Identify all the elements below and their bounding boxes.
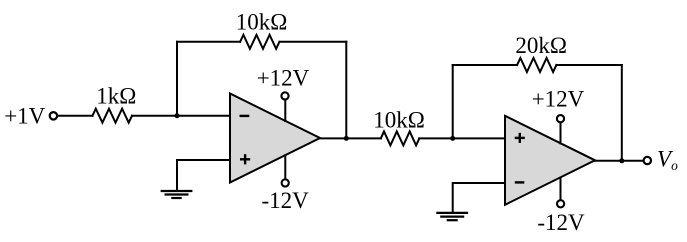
wire feedback1 vertical up (176, 42, 178, 116)
svg-text:Vo: Vo (657, 146, 678, 173)
resistor R3 10kΩ (381, 131, 420, 145)
svg-text:-12V: -12V (537, 210, 585, 235)
wire feedback2 vertical down to output (621, 65, 623, 161)
svg-text:+12V: +12V (257, 66, 310, 91)
wire R3 to op-amp U2 non-inverting input (419, 137, 505, 139)
output terminal (644, 157, 651, 164)
wire feedback2 vertical up (452, 65, 454, 138)
wire input terminal to R1 (58, 115, 93, 117)
U2 -12V supply stub (560, 178, 562, 200)
ground 1 (161, 191, 193, 198)
resistor R2 10kΩ feedback (240, 35, 279, 49)
node output junction dot (619, 158, 624, 163)
U1 +12V supply stub (284, 99, 286, 121)
U1 inverting input symbol − (240, 115, 250, 117)
svg-text:-12V: -12V (262, 188, 310, 213)
svg-text:1kΩ: 1kΩ (96, 84, 136, 109)
U1 -12V terminal (282, 179, 289, 186)
wire U2 output (595, 160, 643, 162)
U2 non-inverting input symbol + (515, 133, 525, 143)
op-amp U2 (505, 116, 595, 205)
U1 -12V supply stub (284, 155, 286, 179)
wire U2 inverting input to ground (453, 183, 505, 213)
ground 2 (436, 213, 468, 220)
svg-text:+1V: +1V (4, 104, 45, 129)
wire feedback1 vertical down to output node (345, 42, 347, 139)
resistor R4 20kΩ feedback (517, 58, 556, 72)
op-amp U1 (230, 94, 320, 183)
U2 +12V supply stub (560, 122, 562, 143)
svg-text:20kΩ: 20kΩ (515, 33, 567, 58)
wire feedback1 top right segment (279, 41, 346, 43)
U2 inverting input symbol − (515, 181, 525, 183)
U1 +12V terminal (281, 92, 288, 99)
U2 -12V terminal (557, 200, 564, 207)
svg-text:10kΩ: 10kΩ (236, 10, 288, 35)
svg-text:10kΩ: 10kΩ (373, 108, 425, 133)
U2 +12V terminal (557, 115, 564, 122)
wire U1 non-inverting input to ground (177, 160, 230, 190)
wire R1 to op-amp U1 inverting input (132, 115, 230, 117)
wire feedback2 top left segment (453, 64, 517, 66)
node A junction dot (175, 113, 180, 118)
node B junction dot (450, 136, 455, 141)
wire U1 output (320, 137, 381, 139)
wire feedback1 top left segment (177, 41, 240, 43)
wire feedback2 top right segment (556, 64, 621, 66)
input terminal (50, 112, 57, 119)
U1 non-inverting input symbol + (240, 154, 250, 164)
node U1 output junction dot (344, 136, 349, 141)
svg-text:+12V: +12V (532, 87, 585, 112)
resistor R1 1kΩ (93, 109, 133, 123)
